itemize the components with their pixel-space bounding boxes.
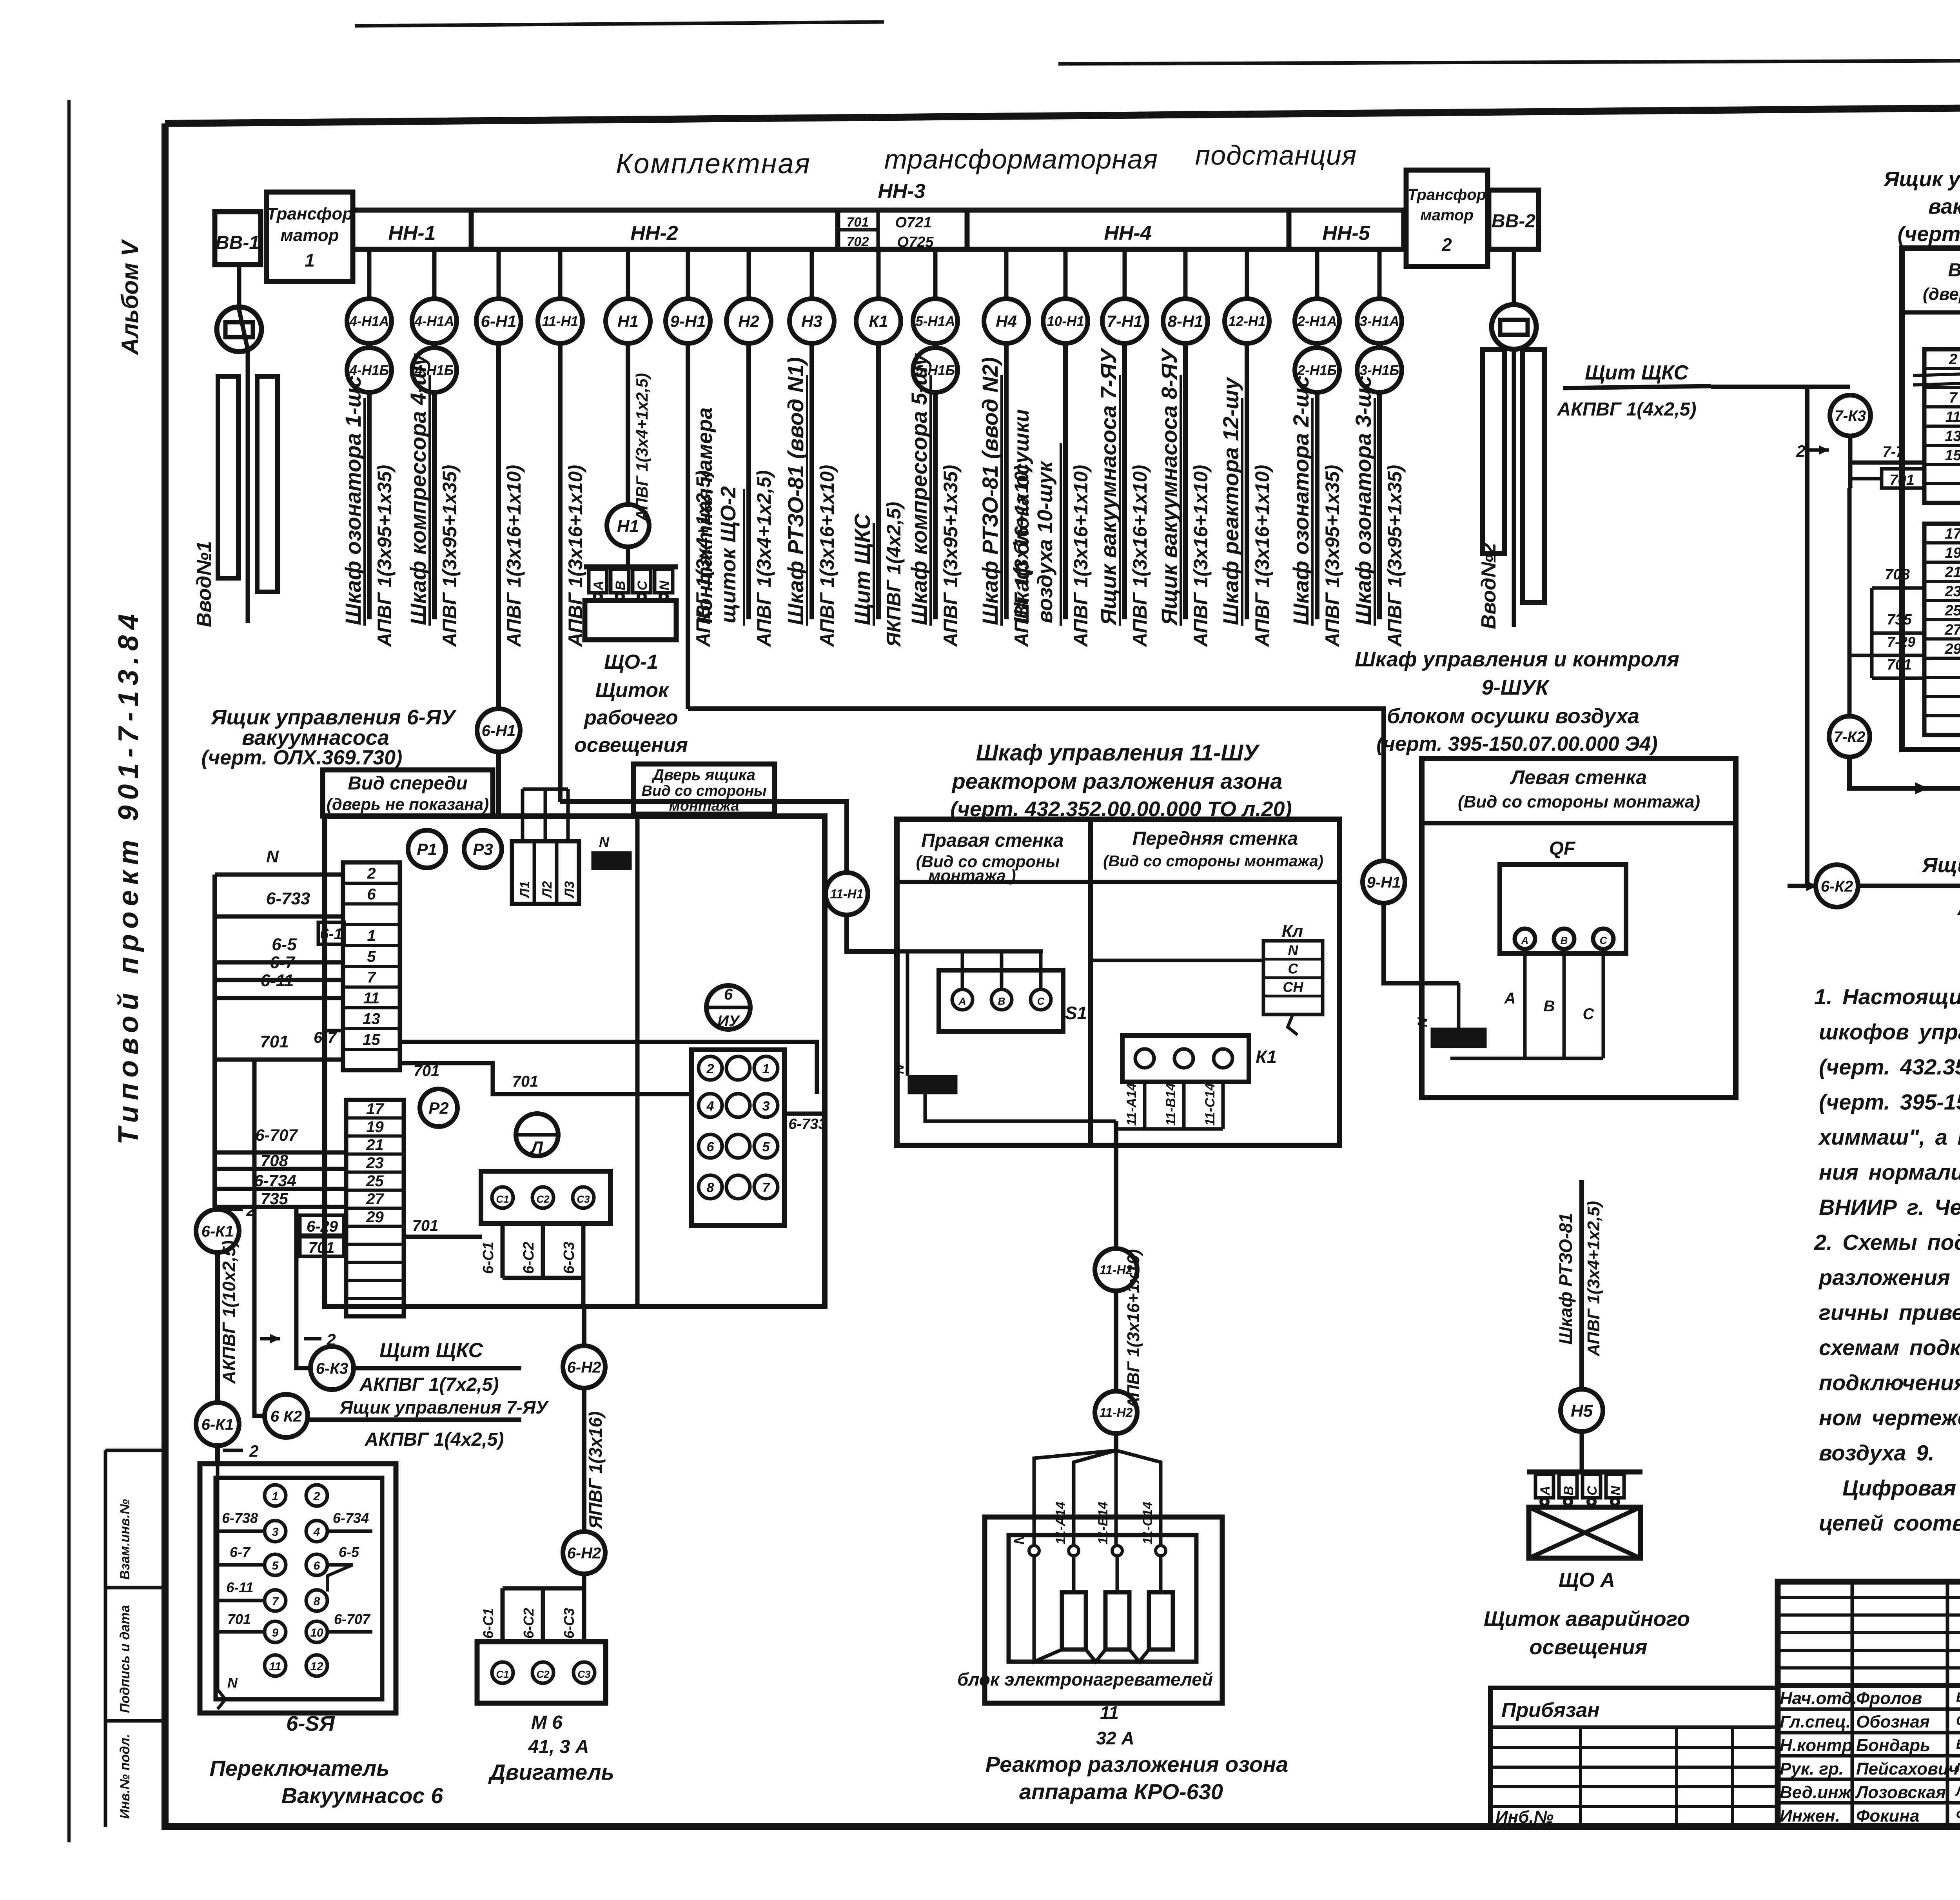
feeder 10-Н1 stub wire — [1063, 249, 1068, 299]
svg-text:(дверь не показана): (дверь не показана) — [1923, 285, 1960, 304]
cable АКПВГ 1(10х2,5) — [215, 1252, 220, 1401]
svg-text:К1: К1 — [1256, 1047, 1277, 1067]
title block main rows — [1778, 1684, 1960, 1688]
svg-text:QF: QF — [1549, 838, 1576, 859]
svg-text:6-К1: 6-К1 — [201, 1223, 234, 1240]
wire QF bottom — [1450, 1057, 1603, 1060]
svg-text:ном чертеже), реактора ра: ном чертеже), реактора разложения азона … — [1819, 1405, 1960, 1430]
svg-text:ВНИИР г. Чебоксары.: ВНИИР г. Чебоксары. — [1819, 1195, 1960, 1219]
cable wire 12-Н1 — [1245, 341, 1249, 619]
wire 6-707 — [215, 1151, 346, 1155]
svg-text:11-Н2: 11-Н2 — [1100, 1406, 1133, 1420]
svg-text:2: 2 — [313, 1490, 320, 1503]
svg-text:схемам подключения вакуумнас: схемам подключения вакуумнасоса 6 (за ис… — [1819, 1335, 1960, 1360]
svg-text:Шкаф блока осушки: Шкаф блока осушки — [1010, 409, 1033, 623]
svg-text:вакуумнасоса: вакуумнасоса — [1928, 195, 1960, 218]
svg-text:701: 701 — [512, 1073, 539, 1090]
svg-text:21: 21 — [1944, 564, 1960, 581]
svg-text:1. Настоящий чертеж выпол: 1. Настоящий чертеж выполнен на основани… — [1814, 984, 1960, 1009]
svg-text:6-734: 6-734 — [333, 1510, 369, 1526]
svg-text:Щит ЩКС: Щит ЩКС — [1585, 361, 1689, 384]
wire to 7-К3 — [1711, 385, 1850, 389]
svg-text:2. Схемы подключения ва: 2. Схемы подключения вакуумнасосов 7 и 8… — [1814, 1230, 1960, 1255]
wire N to merge — [925, 1092, 1116, 1121]
terminal strip TS2 6-ЯУ — [346, 1100, 404, 1316]
connector block 12 circles — [691, 1050, 784, 1225]
motor branch bus — [503, 1586, 584, 1591]
svg-text:708: 708 — [261, 1151, 289, 1170]
feeder 4-Н1А stub wire — [432, 249, 437, 299]
indicator circle Л — [516, 1114, 558, 1156]
svg-text:11-Н1: 11-Н1 — [542, 314, 579, 329]
svg-text:Н4: Н4 — [996, 312, 1017, 330]
cable label underline — [743, 489, 745, 626]
cable АПВГ 1(3х16+1х10) reactor — [1114, 1289, 1118, 1393]
label arrow 2 below 6-К1 — [223, 1449, 243, 1452]
feeder 6-Н1 stub wire — [497, 249, 501, 299]
label 701 lower — [300, 1237, 344, 1256]
svg-text:11: 11 — [1945, 409, 1960, 425]
svg-text:А: А — [1504, 990, 1516, 1007]
wire into S1 — [897, 949, 1043, 954]
svg-text:15: 15 — [1945, 447, 1960, 464]
box 11-ШУ divider — [1088, 819, 1093, 1145]
cable wire Н2 — [746, 341, 751, 619]
selector circles — [265, 1485, 286, 1506]
reactor box 11 outer — [985, 1517, 1222, 1703]
feeder Н1 stub wire — [626, 249, 630, 299]
svg-text:6-Н2: 6-Н2 — [567, 1544, 601, 1562]
svg-text:подстанция: подстанция — [1195, 140, 1357, 171]
svg-text:Шкаф компрессора 4-шу: Шкаф компрессора 4-шу — [406, 353, 430, 625]
heater bottom links — [1034, 1556, 1062, 1662]
panel box ЩО-1 — [585, 601, 676, 640]
svg-text:воздуха 9.: воздуха 9. — [1819, 1441, 1935, 1465]
svg-text:6: 6 — [724, 986, 733, 1003]
svg-text:Щиток аварийного: Щиток аварийного — [1484, 1607, 1690, 1631]
wire 6-1 bypass — [324, 944, 343, 1031]
connector box С1 С2 С3 — [481, 1171, 610, 1223]
feeder 9-Н1 stub wire — [686, 249, 690, 299]
wire Н5 to rail — [1580, 1430, 1584, 1472]
ЩО-1 rail box С — [633, 569, 651, 593]
cell 701 7-ЯУ — [1882, 469, 1924, 488]
relay circle Р3 — [464, 830, 502, 868]
svg-text:Цифровая индексация 6 обоз: Цифровая индексация 6 обозначении кабеле… — [1842, 1475, 1960, 1500]
wires lamp boxes up — [521, 789, 524, 841]
selector box 6-S outer — [200, 1464, 396, 1713]
svg-text:7-Н1: 7-Н1 — [1107, 312, 1142, 330]
wire branch 6-К2 vertical — [1805, 387, 1809, 886]
svg-text:АПВГ 1(3х16+1х10): АПВГ 1(3х16+1х10) — [1190, 465, 1212, 648]
wire N drop 9-ШУК — [1457, 983, 1461, 1029]
svg-text:Фок: Фок — [1956, 1807, 1960, 1822]
svg-text:С2: С2 — [536, 1668, 550, 1680]
circle 11-Н2 upper — [1095, 1249, 1137, 1291]
wire 6-С3 cable down — [582, 1307, 586, 1347]
svg-text:6-С3: 6-С3 — [561, 1242, 577, 1274]
svg-text:Типовой проект 901-7-13.84: Типовой проект 901-7-13.84 — [113, 608, 144, 1145]
svg-text:ЩО А: ЩО А — [1559, 1569, 1615, 1591]
svg-text:2: 2 — [249, 1442, 258, 1460]
cabinet 6-ЯУ header Вид спереди — [323, 770, 493, 816]
svg-text:Передняя стенка: Передняя стенка — [1132, 828, 1298, 849]
wires 6-С1 6-С2 6-С3 — [501, 1223, 505, 1278]
svg-text:Нач.отд.: Нач.отд. — [1780, 1689, 1857, 1708]
svg-text:Правая стенка: Правая стенка — [921, 830, 1063, 851]
feeder circle 8-Н1 — [1163, 299, 1208, 343]
svg-text:6-733: 6-733 — [266, 889, 310, 908]
box Левая стенка body — [1422, 759, 1736, 1098]
feeder circle 10-Н1 — [1043, 299, 1088, 343]
svg-text:41, 3 А: 41, 3 А — [528, 1737, 589, 1757]
svg-text:Н1: Н1 — [617, 312, 639, 330]
terminal strip 7-ЯУ lower — [1924, 524, 1960, 735]
svg-text:Шкаф озонатора 3-шс: Шкаф озонатора 3-шс — [1351, 376, 1376, 625]
svg-text:Б: Б — [1956, 1737, 1960, 1752]
feeder circle 5-Н1Б — [913, 348, 958, 392]
svg-text:23: 23 — [1944, 583, 1960, 600]
feeder circle 3-Н1А — [1357, 299, 1402, 343]
svg-text:АПВГ 1(3х16+1х10): АПВГ 1(3х16+1х10) — [1251, 465, 1273, 648]
svg-text:25: 25 — [366, 1172, 384, 1190]
wire 6-733 — [215, 915, 343, 919]
box 11-ШУ header line — [897, 880, 1339, 884]
svg-text:Ящик управления 7-ЯУ: Ящик управления 7-ЯУ — [339, 1397, 550, 1417]
arrow into 6-К3 — [260, 1337, 280, 1341]
svg-text:4: 4 — [706, 1099, 714, 1114]
svg-text:1: 1 — [367, 927, 376, 944]
label arrow 2 above 6-К1 — [223, 1208, 243, 1211]
svg-text:Ящик вакуумнасоса 8-ЯУ: Ящик вакуумнасоса 8-ЯУ — [1157, 347, 1181, 626]
cable wire К1 — [876, 341, 881, 619]
svg-text:2: 2 — [367, 865, 376, 882]
svg-text:7-7: 7-7 — [1883, 444, 1905, 460]
svg-text:трансформаторная: трансформаторная — [884, 144, 1158, 174]
svg-text:N: N — [266, 847, 279, 866]
feeder 5-Н1А stub wire — [933, 249, 938, 299]
motor unit circle 6/ИУ — [706, 985, 750, 1029]
svg-text:6-733: 6-733 — [788, 1116, 826, 1132]
circle Н5 — [1561, 1389, 1603, 1432]
svg-text:1: 1 — [272, 1490, 279, 1503]
bus section HH-2 — [471, 210, 838, 249]
svg-text:Шкаф компрессора 5-шу: Шкаф компрессора 5-шу — [907, 353, 931, 625]
svg-text:блоком осушки воздуха: блоком осушки воздуха — [1387, 704, 1639, 728]
cable wire 3-Н1А — [1377, 390, 1382, 619]
svg-text:Фролов: Фролов — [1856, 1689, 1922, 1708]
relay circle Р2 — [420, 1089, 457, 1127]
svg-text:АПВГ 1(3х95+1х35): АПВГ 1(3х95+1х35) — [1321, 465, 1343, 648]
svg-text:(Вид со стороны монтажа): (Вид со стороны монтажа) — [1458, 792, 1700, 811]
arrow into 6-К2 — [1788, 884, 1814, 888]
svg-text:С: С — [1288, 961, 1299, 977]
input 2 busbar rectangle A — [1483, 350, 1504, 553]
wire 735 — [215, 1205, 346, 1209]
sheet top edge line segment — [355, 22, 884, 26]
lamp boxes Л1 Л2 Л3 — [512, 841, 579, 904]
switch S1 box — [939, 970, 1063, 1031]
svg-text:2: 2 — [1796, 442, 1805, 460]
svg-text:(черт. ОЛХ.369.730): (черт. ОЛХ.369.730) — [201, 746, 403, 769]
svg-text:Подпись и дата: Подпись и дата — [118, 1605, 132, 1713]
svg-text:АПВГ 1(3х16+1х10): АПВГ 1(3х16+1х10) — [503, 465, 525, 648]
heater elements — [1062, 1592, 1086, 1650]
circle 11-Н1 mid — [826, 873, 868, 915]
circle 6-Н1 — [477, 709, 520, 752]
svg-text:Щит ЩКС: Щит ЩКС — [850, 513, 875, 625]
svg-text:9-ШУК: 9-ШУК — [1482, 676, 1550, 699]
svg-text:6-С1: 6-С1 — [480, 1608, 496, 1639]
feeder 4-Н1А stub wire — [367, 249, 372, 299]
svg-text:8: 8 — [707, 1180, 714, 1195]
terminal strip 7-ЯУ upper — [1924, 349, 1960, 503]
selector N lead — [216, 1464, 220, 1689]
side stamp column — [104, 1450, 107, 1827]
feeder 11-Н1 stub wire — [558, 249, 563, 299]
feeder Н2 stub wire — [747, 249, 751, 299]
svg-text:Шкаф озонатора 1-шс: Шкаф озонатора 1-шс — [341, 376, 365, 625]
svg-text:Гл.спец.: Гл.спец. — [1780, 1712, 1851, 1731]
svg-text:Н3: Н3 — [801, 312, 822, 330]
cable wire 4-Н1А — [367, 390, 372, 619]
svg-text:В: В — [1561, 1486, 1576, 1495]
cable wire Н4 — [1004, 341, 1009, 619]
svg-text:воздуха 10-шук: воздуха 10-шук — [1033, 460, 1057, 623]
svg-text:6-707: 6-707 — [334, 1611, 371, 1627]
feeder circle Н2 — [726, 299, 771, 343]
svg-text:6-Н1: 6-Н1 — [481, 312, 516, 330]
svg-text:Рук. гр.: Рук. гр. — [1780, 1759, 1844, 1778]
svg-text:6-7: 6-7 — [270, 953, 296, 972]
svg-text:АПВГ 1(3х4+1х2,5): АПВГ 1(3х4+1х2,5) — [1584, 1201, 1603, 1357]
circle 6-Н2 lower — [563, 1532, 605, 1574]
cable label underline — [428, 375, 431, 626]
svg-text:10: 10 — [310, 1626, 323, 1639]
svg-text:АПВГ 1(3х95+1х35): АПВГ 1(3х95+1х35) — [439, 465, 461, 648]
sheet top edge line segment 2 — [1058, 59, 1960, 64]
junction box 6-1 — [318, 922, 344, 944]
transformer T2 box — [1406, 170, 1488, 267]
feeder 8-Н1 stub wire — [1183, 249, 1188, 299]
wire 6-5 — [215, 960, 343, 965]
svg-text:6-5: 6-5 — [339, 1544, 359, 1560]
ЩО-1 rail box N — [655, 569, 673, 593]
svg-text:11-В14: 11-В14 — [1096, 1502, 1111, 1544]
cable ЯПВГ 1(3х16) — [582, 1386, 586, 1533]
cable wire 4-Н1А — [432, 390, 437, 619]
svg-text:2: 2 — [1949, 351, 1957, 368]
svg-text:701: 701 — [260, 1032, 289, 1051]
breaker symbol input 1 — [217, 307, 261, 352]
ЩОА terminal rail — [1527, 1470, 1642, 1475]
svg-text:19: 19 — [1945, 545, 1960, 561]
bus section HH-4 — [967, 210, 1289, 249]
svg-text:6-Н2: 6-Н2 — [567, 1359, 601, 1376]
strip break mark 7-ЯУ — [1913, 372, 1960, 376]
svg-text:29: 29 — [1944, 641, 1960, 657]
terminal N black 11-ШУ — [909, 1077, 956, 1092]
svg-text:8: 8 — [314, 1595, 320, 1608]
input 2 busbar rectangle B — [1523, 350, 1544, 602]
svg-text:Дверь ящика: Дверь ящика — [652, 766, 755, 784]
QF poles — [1515, 929, 1535, 949]
feeder Н4 stub wire — [1004, 249, 1009, 299]
breaker cell BB-1 — [215, 212, 261, 265]
svg-text:9-Н1: 9-Н1 — [670, 312, 706, 330]
svg-text:ВВ-1: ВВ-1 — [216, 232, 260, 253]
box 11-ШУ body — [897, 819, 1339, 1145]
cable label underline — [1180, 375, 1182, 626]
svg-text:НН-1: НН-1 — [388, 222, 436, 245]
svg-text:О721: О721 — [895, 214, 932, 231]
svg-text:11-А14: 11-А14 — [1053, 1502, 1068, 1544]
wire to 6-S — [215, 1445, 220, 1464]
svg-text:11-А14: 11-А14 — [1124, 1083, 1139, 1126]
svg-text:Вид спереди: Вид спереди — [348, 773, 467, 794]
terminal strip Кл — [1263, 941, 1323, 1014]
svg-text:ЯКПВГ 1(4х2,5): ЯКПВГ 1(4х2,5) — [883, 502, 905, 648]
svg-text:Трансфор: Трансфор — [1408, 186, 1486, 203]
feeder circle 4 Н1Б — [412, 348, 457, 392]
svg-text:Ввод№2: Ввод№2 — [1477, 543, 1500, 629]
svg-text:5-Н1А: 5-Н1А — [915, 314, 955, 329]
wire 708 — [215, 1167, 346, 1171]
feeder 3-Н1А stub wire — [1377, 249, 1382, 299]
svg-text:С1: С1 — [496, 1193, 509, 1205]
transformer T1 box — [267, 192, 353, 281]
svg-text:Вед.инж.: Вед.инж. — [1780, 1783, 1856, 1802]
wire 6-К2 label run — [1857, 884, 1960, 888]
svg-text:7-29: 7-29 — [1887, 634, 1915, 650]
circle 9-Н1 mid — [1363, 861, 1405, 903]
cable Шкаф РТЗО-81 — [1579, 1180, 1584, 1391]
cable wire 2-Н1А — [1315, 390, 1319, 619]
svg-text:А: А — [1538, 1486, 1553, 1496]
svg-text:(черт. 432.352.00.00.000 ТО л.: (черт. 432.352.00.00.000 ТО л.20) и блок… — [1819, 1054, 1960, 1079]
svg-text:11-В14: 11-В14 — [1163, 1083, 1178, 1126]
wire 9-Н1 long route — [688, 709, 1384, 862]
svg-text:Взам.инв.№: Взам.инв.№ — [118, 1499, 132, 1580]
wire К1 merge down — [1114, 1121, 1118, 1250]
svg-text:701: 701 — [1887, 657, 1911, 673]
svg-text:Инв.№ подл.: Инв.№ подл. — [118, 1734, 132, 1819]
feeder circle Н3 — [789, 299, 834, 343]
svg-text:Бондарь: Бондарь — [1856, 1736, 1930, 1755]
svg-text:Вид со стороны: Вид со стороны — [641, 783, 766, 799]
svg-text:С1: С1 — [496, 1668, 509, 1680]
svg-text:Р1: Р1 — [417, 840, 437, 858]
svg-text:2: 2 — [706, 1062, 714, 1076]
svg-text:29: 29 — [366, 1209, 384, 1226]
svg-text:НН-4: НН-4 — [1104, 222, 1151, 245]
svg-text:Кл: Кл — [1282, 922, 1303, 941]
svg-text:N: N — [227, 1675, 238, 1691]
cable circle 6-К2 right — [1816, 865, 1858, 907]
wire 6-734 — [215, 1187, 346, 1191]
svg-text:11: 11 — [1100, 1702, 1119, 1723]
ЩО-1 rail box В — [611, 569, 629, 593]
wire N — [215, 873, 343, 877]
svg-text:В.Ф: В.Ф — [1956, 1690, 1960, 1705]
svg-text:6-С1: 6-С1 — [480, 1242, 497, 1274]
svg-text:701: 701 — [414, 1062, 440, 1080]
cable wire 5-Н1А — [933, 390, 938, 619]
cable label underline — [363, 398, 366, 626]
svg-text:АПВГ 1(3х95+1х35): АПВГ 1(3х95+1х35) — [940, 465, 962, 648]
svg-text:1: 1 — [762, 1062, 770, 1076]
wire 11-Н1 route — [560, 802, 847, 874]
feeder 12-Н1 stub wire — [1245, 249, 1249, 299]
svg-text:АКПВГ 1(4х2,5): АКПВГ 1(4х2,5) — [365, 1429, 504, 1450]
label 2 arrow — [304, 1337, 321, 1341]
svg-text:Р3: Р3 — [473, 840, 493, 858]
svg-text:6-С2: 6-С2 — [521, 1608, 537, 1639]
svg-text:(дверь не показана): (дверь не показана) — [327, 795, 489, 813]
svg-text:8-Н1: 8-Н1 — [1167, 312, 1203, 330]
svg-text:6: 6 — [367, 886, 376, 903]
breaker symbol input 2 — [1492, 305, 1536, 349]
svg-text:13: 13 — [363, 1010, 380, 1027]
box Левая стенка header line — [1422, 821, 1736, 826]
cabinet 6-ЯУ body — [325, 816, 825, 1307]
panel box ЩОА crossed — [1529, 1507, 1641, 1558]
feeder circle 3-Н1Б — [1357, 348, 1402, 392]
svg-text:25: 25 — [1944, 602, 1960, 619]
svg-text:6-Н1: 6-Н1 — [482, 722, 516, 739]
svg-text:6: 6 — [314, 1559, 320, 1572]
cable label underline — [1060, 443, 1062, 626]
svg-text:матор: матор — [1420, 207, 1474, 224]
svg-text:4-Н1А: 4-Н1А — [349, 314, 389, 329]
svg-text:Комплектная: Комплектная — [616, 148, 811, 180]
svg-text:Ввод№1: Ввод№1 — [193, 541, 216, 627]
breaker QF box — [1500, 864, 1626, 953]
feeder circle 7-Н1 — [1102, 299, 1147, 343]
svg-text:С: С — [1585, 1486, 1600, 1495]
svg-text:701: 701 — [412, 1217, 439, 1234]
feeder circle 2-Н1Б — [1295, 348, 1339, 392]
svg-text:разложения озона 12 и бл: разложения озона 12 и блока осушки возду… — [1818, 1265, 1960, 1290]
svg-text:монтажа ): монтажа ) — [928, 866, 1016, 885]
svg-text:11-С14: 11-С14 — [1203, 1083, 1218, 1126]
svg-text:Л: Л — [530, 1138, 543, 1157]
input 1 busbar rectangle B — [257, 376, 278, 592]
svg-text:S1: S1 — [1065, 1003, 1087, 1023]
wire 6-К2 to Ящик 7-ЯУ — [307, 1417, 521, 1422]
svg-text:9: 9 — [272, 1626, 279, 1639]
wires К1 down — [1143, 1082, 1147, 1129]
svg-text:АКПВГ 1( 4х2,5): АКПВГ 1( 4х2,5) — [1956, 898, 1960, 920]
cable circle 7-К3 — [1830, 395, 1871, 436]
cable label underline — [1241, 398, 1243, 626]
feeder circle 9-Н1 — [666, 299, 710, 343]
svg-text:13: 13 — [1945, 428, 1960, 445]
cable label underline — [1311, 398, 1314, 626]
svg-text:(Вид со стороны монтажа): (Вид со стороны монтажа) — [1103, 853, 1323, 870]
svg-text:ВВ-2: ВВ-2 — [1492, 211, 1535, 232]
svg-text:АПВГ 1(3х16+1х10): АПВГ 1(3х16+1х10) — [1129, 465, 1151, 648]
breaker cell BB-2 — [1489, 190, 1539, 249]
svg-text:освещения: освещения — [1530, 1635, 1648, 1659]
selector wire labels — [218, 1530, 265, 1533]
svg-text:3: 3 — [272, 1526, 279, 1539]
svg-text:(черт. 395-150, 07.00.000 Э4 ): (черт. 395-150, 07.00.000 Э4 ), разработ… — [1819, 1090, 1960, 1114]
svg-text:Н2: Н2 — [738, 312, 759, 330]
svg-text:708: 708 — [1885, 566, 1910, 583]
svg-text:2: 2 — [1441, 234, 1452, 255]
svg-text:Л1: Л1 — [517, 881, 532, 899]
